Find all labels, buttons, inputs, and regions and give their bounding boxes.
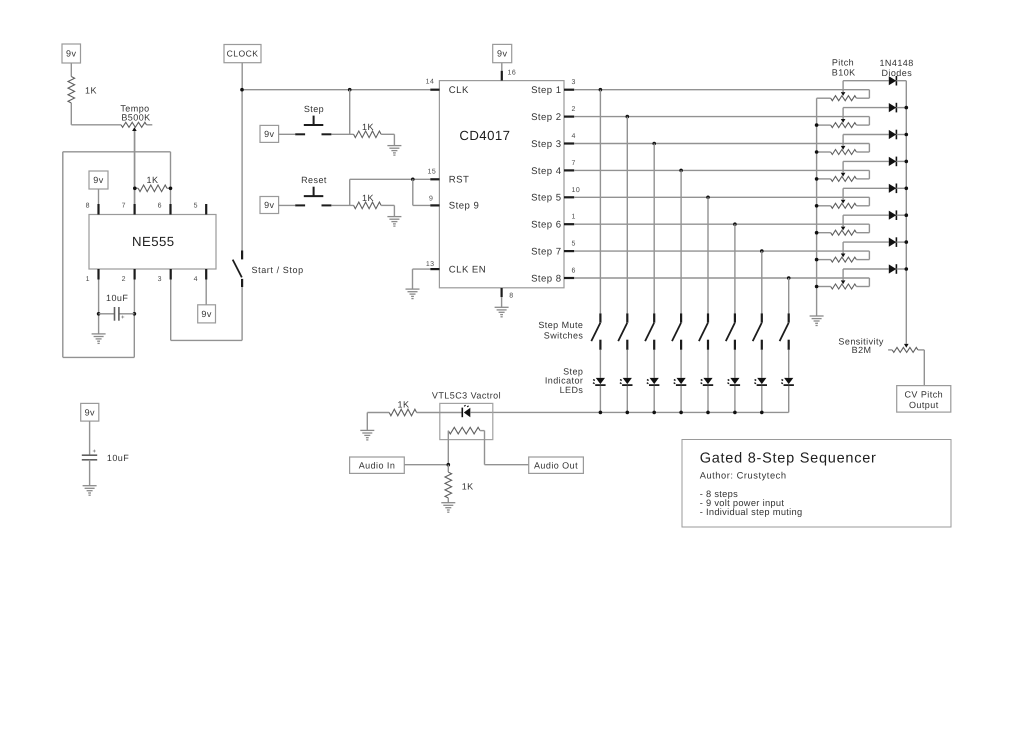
svg-text:9v: 9v xyxy=(497,49,507,59)
svg-text:Step 8: Step 8 xyxy=(531,273,561,284)
svg-text:Gated 8-Step Sequencer: Gated 8-Step Sequencer xyxy=(700,450,877,466)
svg-text:Start / Stop: Start / Stop xyxy=(252,265,304,275)
svg-text:10uF: 10uF xyxy=(107,453,129,463)
svg-text:B500K: B500K xyxy=(121,112,150,122)
svg-text:VTL5C3 Vactrol: VTL5C3 Vactrol xyxy=(432,391,501,401)
svg-text:5: 5 xyxy=(572,241,576,248)
svg-text:5: 5 xyxy=(194,203,198,210)
svg-text:Diodes: Diodes xyxy=(881,68,912,78)
svg-text:4: 4 xyxy=(194,276,198,283)
svg-text:Audio Out: Audio Out xyxy=(534,460,578,470)
svg-text:CLK: CLK xyxy=(449,85,469,96)
svg-text:9v: 9v xyxy=(85,407,95,417)
svg-text:Step 4: Step 4 xyxy=(531,166,562,177)
svg-text:10: 10 xyxy=(572,187,581,194)
svg-text:9v: 9v xyxy=(264,200,274,210)
svg-text:1K: 1K xyxy=(398,399,410,409)
svg-text:- Individual step muting: - Individual step muting xyxy=(700,507,803,517)
svg-text:3: 3 xyxy=(572,79,576,86)
svg-text:9: 9 xyxy=(429,196,433,203)
svg-text:10uF: 10uF xyxy=(106,293,128,303)
svg-text:7: 7 xyxy=(122,203,126,210)
svg-text:1K: 1K xyxy=(147,175,159,185)
svg-text:Step 5: Step 5 xyxy=(531,193,561,204)
svg-text:+: + xyxy=(93,449,97,455)
svg-text:15: 15 xyxy=(428,169,437,176)
svg-text:+: + xyxy=(121,315,125,321)
svg-text:14: 14 xyxy=(426,79,435,86)
svg-text:CD4017: CD4017 xyxy=(459,128,510,143)
svg-text:B2M: B2M xyxy=(852,345,872,355)
svg-text:NE555: NE555 xyxy=(132,234,175,249)
svg-text:1N4148: 1N4148 xyxy=(879,58,913,68)
svg-text:Switches: Switches xyxy=(544,330,584,340)
svg-text:8: 8 xyxy=(509,293,513,300)
svg-text:2: 2 xyxy=(122,276,126,283)
svg-text:1: 1 xyxy=(572,214,576,221)
svg-text:9v: 9v xyxy=(201,309,211,319)
svg-text:Step 3: Step 3 xyxy=(531,139,561,150)
svg-text:Pitch: Pitch xyxy=(832,58,854,68)
svg-text:1: 1 xyxy=(86,276,90,283)
svg-text:Author: Crustytech: Author: Crustytech xyxy=(700,470,787,480)
svg-text:6: 6 xyxy=(158,203,162,210)
svg-text:CLK EN: CLK EN xyxy=(449,264,486,275)
svg-text:1K: 1K xyxy=(85,86,97,96)
svg-text:9v: 9v xyxy=(93,175,103,185)
svg-text:Step 2: Step 2 xyxy=(531,112,561,123)
svg-text:8: 8 xyxy=(86,203,90,210)
svg-text:2: 2 xyxy=(572,106,576,113)
svg-text:Indicator: Indicator xyxy=(545,376,584,386)
svg-text:9v: 9v xyxy=(66,49,76,59)
svg-text:CV Pitch: CV Pitch xyxy=(904,390,943,400)
svg-text:Audio In: Audio In xyxy=(359,460,396,470)
svg-text:CLOCK: CLOCK xyxy=(227,49,259,59)
svg-text:13: 13 xyxy=(426,261,435,268)
svg-text:Step 7: Step 7 xyxy=(531,247,561,258)
svg-text:3: 3 xyxy=(158,276,162,283)
svg-text:9v: 9v xyxy=(264,129,274,139)
svg-text:1K: 1K xyxy=(362,122,374,132)
svg-text:1K: 1K xyxy=(362,193,374,203)
svg-text:4: 4 xyxy=(572,133,576,140)
svg-text:RST: RST xyxy=(449,175,470,186)
svg-text:Step 9: Step 9 xyxy=(449,201,479,212)
svg-text:7: 7 xyxy=(572,160,576,167)
svg-text:Output: Output xyxy=(909,400,939,410)
svg-text:Step: Step xyxy=(304,104,324,114)
svg-text:Reset: Reset xyxy=(301,175,327,185)
svg-text:Step Mute: Step Mute xyxy=(538,320,583,330)
svg-text:1K: 1K xyxy=(462,481,474,491)
svg-text:Step 1: Step 1 xyxy=(531,85,561,96)
svg-text:6: 6 xyxy=(572,268,576,275)
svg-text:Step 6: Step 6 xyxy=(531,220,561,231)
svg-text:B10K: B10K xyxy=(832,68,856,78)
svg-text:16: 16 xyxy=(508,70,517,77)
svg-text:LEDs: LEDs xyxy=(560,385,584,395)
